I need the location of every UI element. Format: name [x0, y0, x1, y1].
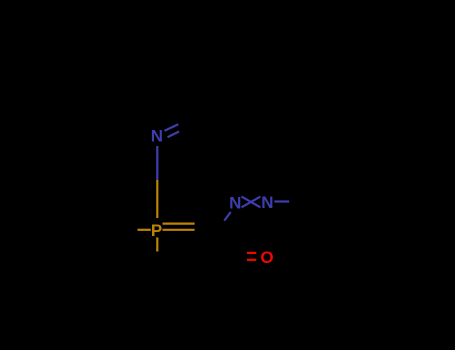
- bond P-phenyl left stub (orange): [138, 229, 151, 231]
- bond C=N1 main line (blue half): [165, 124, 179, 130]
- bond N3-phenyl stub (blue): [274, 200, 289, 202]
- bond C=N1 inner line (blue half): [168, 132, 179, 138]
- svg-text:N: N: [151, 126, 163, 145]
- bond N2=N3 crossed line 1 (blue): [242, 197, 261, 208]
- svg-text:N: N: [229, 194, 241, 213]
- bond P=C lower line (orange half): [163, 229, 195, 231]
- svg-text:O: O: [260, 248, 273, 267]
- bond C=O lower line (red half): [247, 259, 256, 261]
- bond N1-P lower half (orange): [156, 180, 158, 218]
- svg-text:N: N: [261, 193, 273, 212]
- bond C=O upper line (red half): [247, 252, 256, 254]
- bond P=C upper line (orange half): [163, 223, 195, 225]
- bond N2=N3 crossed line 2 (blue): [242, 197, 261, 208]
- bond P-phenyl down stub (orange): [156, 237, 158, 251]
- svg-text:P: P: [151, 221, 162, 240]
- bond C-N2 azo half (blue): [224, 212, 230, 221]
- bond N1-P upper half (blue): [156, 146, 158, 180]
